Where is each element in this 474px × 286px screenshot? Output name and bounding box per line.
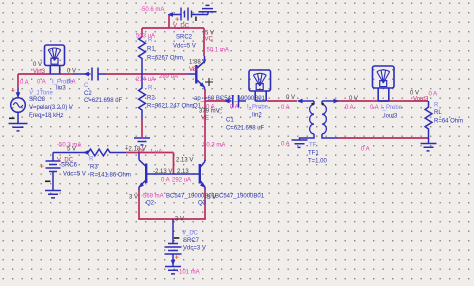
label 0A probe left bbox=[37, 80, 46, 86]
label Q1 model bbox=[194, 96, 266, 102]
wire R1 top stub bbox=[141, 28, 143, 37]
svg-text:0 A: 0 A bbox=[230, 105, 239, 111]
svg-text:5 V: 5 V bbox=[67, 147, 76, 153]
label 0A below secondary bbox=[361, 147, 370, 153]
svg-text:VC: VC bbox=[205, 37, 214, 43]
wire probe to C2 bbox=[60, 73, 73, 75]
wire collector Q1 bbox=[203, 28, 205, 56]
label I_Probe Iin3 bbox=[52, 80, 76, 92]
plus mark SRC7 bbox=[175, 253, 180, 262]
label 1.88V VB bbox=[189, 60, 206, 74]
label -2.13V bases bbox=[153, 169, 189, 175]
svg-text:1.88 V: 1.88 V bbox=[189, 60, 206, 66]
svg-text:R=64 Ohm: R=64 Ohm bbox=[434, 119, 463, 125]
svg-text:BC547_19000B01: BC547_19000B01 bbox=[215, 194, 265, 200]
wire mirror bottom bbox=[138, 218, 206, 220]
wire C2 to base node bbox=[106, 73, 188, 75]
label 0V before TF bbox=[286, 95, 295, 101]
resistor R1 bbox=[139, 37, 146, 74]
svg-text:SRC2: SRC2 bbox=[176, 35, 193, 41]
label Q3 model bbox=[215, 194, 265, 200]
svg-text:0 A: 0 A bbox=[281, 105, 290, 111]
wire mirror top to bases bbox=[173, 153, 175, 175]
label 0V Vout3 bbox=[410, 91, 437, 103]
svg-text:TF: TF bbox=[309, 143, 317, 149]
svg-text:289 uA: 289 uA bbox=[159, 74, 178, 80]
svg-text:R=9621.247 Ohm: R=9621.247 Ohm bbox=[147, 104, 195, 110]
transformer polarity dots bbox=[311, 103, 324, 105]
wire base rail Q2 Q3 bbox=[146, 173, 200, 175]
svg-text:TF1: TF1 bbox=[308, 151, 319, 157]
svg-text:50.1 mA: 50.1 mA bbox=[207, 48, 229, 54]
svg-text:3 V: 3 V bbox=[175, 217, 184, 223]
svg-text:214 uA: 214 uA bbox=[136, 77, 155, 83]
minus mark SRC7 bbox=[174, 237, 180, 239]
label 5V VC 50.1mA bbox=[205, 31, 229, 54]
label 379mV VE bbox=[199, 109, 220, 122]
capacitor C1 bbox=[225, 95, 247, 108]
wire R2 bottom stub bbox=[141, 119, 143, 137]
label RL bbox=[434, 103, 463, 125]
label 0A source bbox=[20, 80, 29, 86]
ground under R2 bbox=[134, 138, 150, 145]
label 0V Vin3 bbox=[33, 62, 46, 75]
label 2.13V node bbox=[176, 158, 193, 164]
svg-text:0 V: 0 V bbox=[286, 95, 295, 101]
label TF1 bbox=[308, 143, 328, 165]
svg-text:0 A: 0 A bbox=[37, 80, 46, 86]
transistor Q2 bbox=[139, 153, 147, 190]
wire secondary bottom to RL bottom bbox=[338, 137, 428, 139]
minus mark SRC2 bbox=[195, 17, 197, 22]
label I_Probe Iin2 bbox=[230, 105, 290, 119]
transistor Q1 bbox=[188, 56, 205, 90]
svg-text:R=6267 Ohm: R=6267 Ohm bbox=[147, 56, 183, 62]
I_Probe Iin3 bbox=[45, 45, 65, 74]
label 3V SRC7 bbox=[175, 217, 184, 223]
svg-text:Vdc=5 V: Vdc=5 V bbox=[63, 172, 86, 178]
wire emitter to C1 bbox=[205, 100, 225, 102]
svg-text:0 A: 0 A bbox=[67, 80, 76, 86]
svg-text:ap_=60 BC547_19000B01: ap_=60 BC547_19000B01 bbox=[194, 96, 266, 102]
ground under transformer primary bbox=[292, 138, 308, 147]
svg-text:+: + bbox=[175, 253, 180, 262]
svg-text:0 A: 0 A bbox=[161, 178, 170, 184]
svg-text:2.13: 2.13 bbox=[177, 169, 189, 175]
transformer TF1 primary bbox=[298, 99, 315, 138]
svg-text:Vout3: Vout3 bbox=[413, 97, 429, 103]
wire VCC rail bbox=[142, 27, 204, 29]
label 0A 292uA bbox=[161, 178, 191, 184]
svg-text:I_Probe: I_Probe bbox=[247, 105, 269, 111]
svg-text:R2: R2 bbox=[147, 96, 155, 102]
source V_1Tone SRC8 bbox=[11, 88, 26, 123]
svg-text:RL: RL bbox=[434, 110, 442, 116]
label 0A at C1 bbox=[206, 105, 215, 111]
svg-text:0 A: 0 A bbox=[281, 142, 290, 148]
label C1 bbox=[218, 110, 265, 132]
svg-text:Q3: Q3 bbox=[198, 201, 207, 207]
transistor Q3 bbox=[200, 160, 206, 190]
label V_DC SRC6 bbox=[57, 158, 86, 178]
svg-text:Vin3: Vin3 bbox=[33, 69, 46, 75]
svg-text:V=polar(3.2,0) V: V=polar(3.2,0) V bbox=[29, 105, 73, 111]
svg-text:0 A: 0 A bbox=[370, 105, 379, 111]
ground under SRC8 bbox=[9, 124, 28, 131]
minus mark SRC6 bbox=[45, 181, 51, 183]
svg-text:Vdc=5 V: Vdc=5 V bbox=[173, 44, 196, 50]
I_Probe Iin2 bbox=[249, 70, 271, 101]
wire battery feed bbox=[168, 15, 170, 29]
wire Q3 emitter down bbox=[204, 189, 206, 219]
label -50.6 mA bbox=[140, 7, 164, 13]
wire emitter Q1 down to Q3 bbox=[204, 89, 206, 161]
label 3V Q2 bbox=[129, 195, 155, 207]
svg-text:1 uA: 1 uA bbox=[150, 150, 162, 156]
wire secondary top to RL bbox=[338, 100, 428, 102]
wire input net horizontal bbox=[18, 73, 50, 75]
label -50.3 mA 5V bbox=[57, 143, 81, 153]
label -569 mA bbox=[141, 194, 164, 200]
svg-text:0 A: 0 A bbox=[361, 147, 370, 153]
label R2 Q1 bbox=[147, 86, 202, 110]
svg-text:V_1Tone: V_1Tone bbox=[29, 91, 53, 97]
resistor R3 bbox=[84, 149, 127, 156]
svg-text:-101 mA: -101 mA bbox=[177, 270, 200, 276]
svg-text:0 A: 0 A bbox=[345, 105, 354, 111]
label V_DC SRC7 bbox=[182, 231, 206, 252]
svg-text:R: R bbox=[148, 86, 153, 92]
minus mark SRC8 bbox=[9, 118, 15, 120]
svg-text:0 V: 0 V bbox=[33, 62, 42, 68]
svg-text:R: R bbox=[89, 157, 94, 163]
svg-text:C2: C2 bbox=[84, 91, 92, 97]
label V_DC SRC2 bbox=[173, 24, 196, 50]
svg-text:SRC8: SRC8 bbox=[29, 97, 46, 103]
svg-text:Va: Va bbox=[137, 149, 145, 155]
I_Probe Iout3 bbox=[373, 66, 395, 101]
svg-text:+: + bbox=[11, 88, 15, 95]
dc source SRC7 bbox=[165, 241, 182, 266]
svg-text:0 A: 0 A bbox=[20, 80, 29, 86]
label 3V Q3 bbox=[198, 195, 216, 207]
dc source SRC6 bbox=[46, 153, 61, 191]
svg-text:0 A: 0 A bbox=[206, 105, 215, 111]
wire C1 probe to transformer bbox=[267, 100, 297, 102]
svg-text:3 V: 3 V bbox=[129, 195, 138, 201]
svg-text:2.13 V: 2.13 V bbox=[176, 158, 193, 164]
svg-text:292 uA: 292 uA bbox=[172, 178, 191, 184]
svg-text:C=621.698 uF: C=621.698 uF bbox=[84, 98, 123, 104]
resistor R2 bbox=[139, 74, 146, 120]
label 0V after probe bbox=[67, 69, 76, 75]
svg-text:-569 mA: -569 mA bbox=[141, 194, 164, 200]
wire Q2 emitter down bbox=[138, 189, 140, 219]
svg-text:C=621.698 uF: C=621.698 uF bbox=[226, 126, 265, 132]
wire probe Iin3 bottom bbox=[50, 73, 61, 75]
transformer TF1 secondary bbox=[322, 99, 339, 138]
wire mirror top bbox=[126, 152, 174, 154]
ground under SRC6 bbox=[45, 191, 61, 198]
label V_1Tone SRC8 bbox=[29, 91, 73, 120]
node cross at Q1 emitter bbox=[205, 78, 213, 86]
svg-text:I_Probe: I_Probe bbox=[381, 105, 403, 111]
label C2 bbox=[84, 83, 123, 104]
svg-text:VE: VE bbox=[201, 116, 209, 122]
label R1 bbox=[147, 38, 183, 62]
wire mirror bottom to SRC7 bbox=[172, 219, 174, 241]
svg-text:C1: C1 bbox=[226, 118, 234, 124]
svg-text:SRC6: SRC6 bbox=[61, 163, 78, 169]
label 214uA 289uA bbox=[136, 74, 178, 83]
label Q2 model bbox=[166, 194, 216, 200]
svg-text:R: R bbox=[148, 38, 153, 44]
ground top right of SRC2 bbox=[199, 5, 217, 14]
svg-text:Freq=18 kHz: Freq=18 kHz bbox=[29, 113, 64, 119]
capacitor C2 bbox=[73, 68, 106, 81]
label +2.13V Va bbox=[125, 147, 162, 156]
resistor RL bbox=[425, 101, 432, 143]
svg-text:0 A: 0 A bbox=[429, 92, 438, 98]
ground under RL bbox=[421, 144, 437, 151]
wire SRC6 to R3 bbox=[53, 152, 84, 154]
svg-text:R: R bbox=[434, 103, 439, 109]
svg-text:-2.13 V: -2.13 V bbox=[153, 169, 172, 175]
label I_Probe Iout3 bbox=[345, 105, 403, 120]
svg-text:T=1.00: T=1.00 bbox=[308, 159, 328, 165]
svg-text:50.3 mA: 50.3 mA bbox=[203, 143, 225, 149]
svg-text:V_DC: V_DC bbox=[173, 24, 190, 30]
svg-text:C: C bbox=[218, 110, 223, 116]
svg-text:0 V: 0 V bbox=[349, 96, 358, 102]
svg-text:-50.6 mA: -50.6 mA bbox=[140, 7, 164, 13]
label 503 uA bbox=[136, 34, 155, 40]
svg-text:Iin3: Iin3 bbox=[56, 86, 66, 92]
label -101 mA bbox=[177, 270, 200, 276]
plus mark SRC8 bbox=[11, 88, 15, 95]
label 50.3 mA bbox=[203, 143, 225, 149]
svg-text:C: C bbox=[84, 83, 89, 89]
svg-text:Iin2: Iin2 bbox=[252, 113, 262, 119]
svg-text:R3: R3 bbox=[90, 165, 98, 171]
svg-text:Q2: Q2 bbox=[146, 201, 155, 207]
svg-text:Vdc=3 V: Vdc=3 V bbox=[183, 246, 206, 252]
svg-text:VB: VB bbox=[189, 67, 197, 73]
svg-text:R1: R1 bbox=[147, 47, 155, 53]
wire input net vertical to source bbox=[17, 74, 19, 88]
dc source SRC2 bbox=[168, 8, 208, 21]
label 0V secondary bbox=[349, 96, 358, 102]
svg-text:R=141.86 Ohm: R=141.86 Ohm bbox=[90, 173, 131, 179]
svg-text:+: + bbox=[40, 162, 45, 171]
svg-text:0 V: 0 V bbox=[67, 69, 76, 75]
svg-text:V_DC: V_DC bbox=[182, 231, 199, 237]
label R3 bbox=[89, 157, 131, 179]
svg-text:3 V: 3 V bbox=[207, 195, 216, 201]
ground under SRC7 bbox=[165, 267, 181, 274]
svg-text:SRC7: SRC7 bbox=[183, 238, 200, 244]
svg-text:+: + bbox=[175, 15, 180, 24]
svg-text:Iout3: Iout3 bbox=[384, 114, 398, 120]
plus mark SRC6 bbox=[40, 162, 45, 171]
plus mark SRC2 bbox=[175, 15, 180, 24]
label 0A TF ground bbox=[281, 142, 290, 148]
